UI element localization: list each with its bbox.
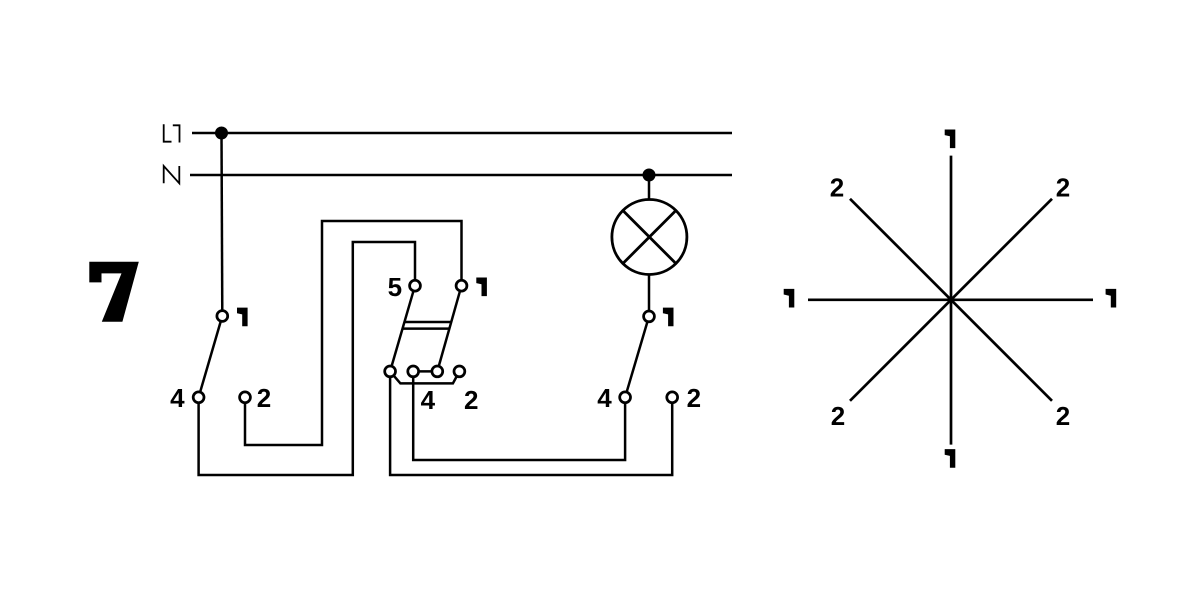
switch S1 terminal 2 <box>240 392 251 403</box>
crossover star vertical ray <box>950 156 953 445</box>
star label 1 left <box>784 289 795 308</box>
switch S1 lever <box>199 316 223 397</box>
wire S1 pin 2 to S2 pin 1 <box>245 221 462 445</box>
svg-text:2: 2 <box>464 385 478 415</box>
svg-text:5: 5 <box>388 272 402 302</box>
svg-text:2: 2 <box>257 383 271 413</box>
switch S3 terminal 1 <box>644 311 655 322</box>
svg-text:4: 4 <box>421 385 436 415</box>
switch S3 terminal 2 <box>667 392 678 403</box>
switch S2 bottom terminal A <box>385 366 396 377</box>
label S1 pin 1 <box>237 308 248 327</box>
wire L1 bus <box>192 132 732 135</box>
wire N bus <box>190 174 732 177</box>
svg-text:4: 4 <box>170 383 185 413</box>
svg-text:2: 2 <box>1056 173 1070 203</box>
wire S2 bottom A to S3 pin 2 <box>390 371 672 475</box>
label S2 pin 1 <box>476 278 487 297</box>
lamp E1 circle <box>612 200 687 275</box>
crossover star horizontal ray <box>808 298 1093 301</box>
wire S2 bottom B to S3 pin 4 <box>413 371 625 460</box>
crossover star diagonal ray SW-NE <box>850 199 1052 401</box>
wire L1 drop to switch S1 pin 1 <box>220 133 223 316</box>
net label N <box>164 166 180 183</box>
svg-text:2: 2 <box>830 173 844 203</box>
junction dot on N <box>643 169 656 182</box>
net label L1 <box>164 124 180 142</box>
svg-text:4: 4 <box>597 383 612 413</box>
star label 1 bottom <box>945 449 956 468</box>
switch S2 terminal 5 <box>410 280 421 291</box>
switch S2 lever left <box>390 286 415 372</box>
switch S3 lever <box>625 316 649 397</box>
switch S2 bottom terminal C <box>432 366 443 377</box>
junction dot on L1 <box>215 127 228 140</box>
figure number 7 <box>89 262 139 322</box>
wire S1 pin 4 to S2 pin 5 <box>199 242 415 475</box>
lamp E1 cross <box>623 211 676 264</box>
star label 1 top <box>945 130 956 149</box>
svg-text:2: 2 <box>831 401 845 431</box>
switch S1 terminal 4 <box>193 392 204 403</box>
bridge bracket S2 bottom A to D <box>390 371 459 383</box>
label S3 pin 1 <box>663 308 674 327</box>
switch S2 lever right <box>437 286 461 372</box>
switch S3 terminal 4 <box>620 392 631 403</box>
svg-text:2: 2 <box>687 383 701 413</box>
switch S2 bottom terminal D <box>454 366 465 377</box>
switch S1 terminal 1 <box>217 311 228 322</box>
wire N junction through lamp to S3 pin 1 <box>648 175 651 316</box>
crossover star diagonal ray NW-SE <box>850 199 1052 401</box>
switch S2 coupling bar <box>402 322 451 329</box>
switch S2 bottom terminal B <box>408 366 419 377</box>
star label 1 right <box>1106 289 1117 308</box>
svg-text:2: 2 <box>1056 401 1070 431</box>
link between S2 bottom terminals B and C <box>413 370 437 373</box>
switch S2 terminal 1 <box>456 280 467 291</box>
